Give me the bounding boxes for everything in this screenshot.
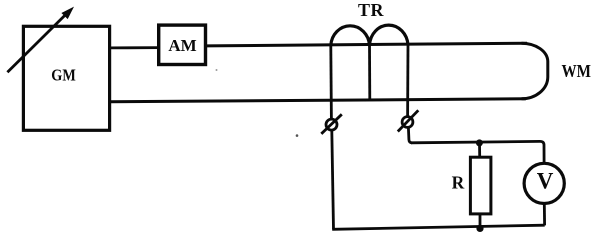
wire probe1 down bbox=[332, 130, 334, 229]
svg-text:AM: AM bbox=[168, 36, 196, 55]
probe 2 (right, circle with slash) bbox=[398, 110, 419, 131]
svg-text:R: R bbox=[452, 173, 465, 193]
voltmeter V bbox=[524, 163, 564, 203]
wire GM to AM bbox=[110, 46, 159, 49]
svg-text:WM: WM bbox=[561, 61, 591, 81]
tuning arrow through GM bbox=[7, 7, 74, 73]
wire loop2 right leg down to probe bbox=[406, 45, 409, 117]
wire junction to R top bbox=[478, 143, 481, 157]
wire loop1 left leg down to probe bbox=[329, 45, 332, 119]
wire bottom return bbox=[332, 225, 545, 229]
wire V bottom bbox=[543, 204, 546, 226]
probe 1 (left, circle with slash) bbox=[321, 114, 342, 134]
wire middle leg bbox=[368, 45, 371, 101]
svg-text:GM: GM bbox=[51, 66, 76, 85]
attenuator AM bbox=[159, 25, 206, 64]
svg-text:TR: TR bbox=[358, 0, 385, 20]
speck left of probe wire bbox=[296, 134, 299, 137]
svg-text:V: V bbox=[537, 169, 554, 194]
resistor R bbox=[452, 157, 491, 214]
wire probe2 to V top bbox=[411, 141, 544, 163]
speck near AM bbox=[216, 69, 218, 71]
wire R bottom to junction bbox=[479, 214, 482, 229]
node junction top (R tap) bbox=[476, 139, 483, 146]
wire top transmission line bbox=[206, 43, 528, 46]
coupler loop 1 bbox=[331, 26, 370, 46]
wire bottom transmission line bbox=[110, 99, 526, 102]
node junction bottom bbox=[476, 225, 483, 232]
wire probe2 down bbox=[408, 127, 412, 142]
coupler loop 2 bbox=[370, 25, 409, 45]
waveguide end cap WM bbox=[522, 43, 592, 99]
generator GM bbox=[23, 26, 109, 130]
